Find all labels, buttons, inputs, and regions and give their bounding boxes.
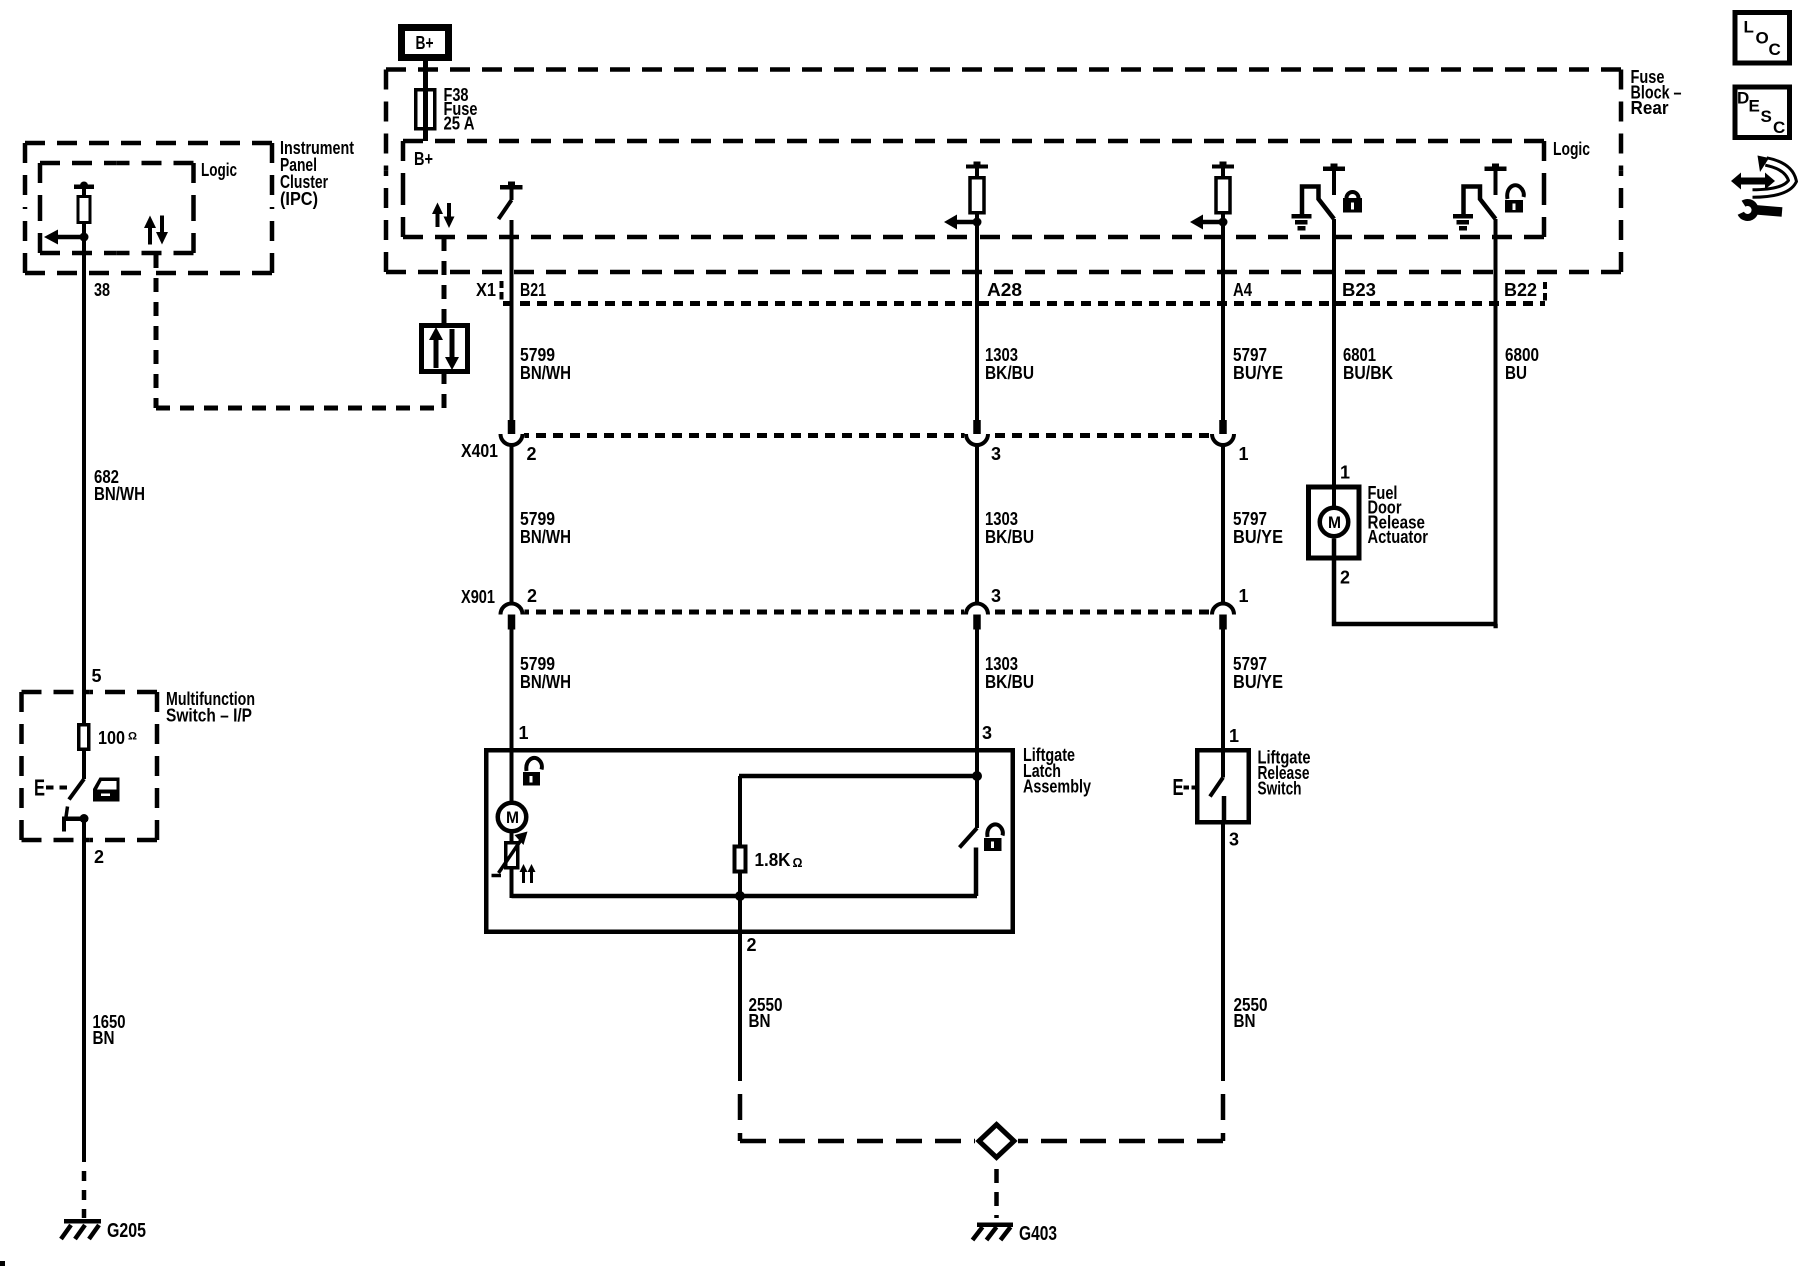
svg-text:B+: B+: [414, 149, 433, 169]
svg-text:G205: G205: [107, 1220, 146, 1242]
svg-text:1.8K: 1.8K: [755, 850, 791, 870]
svg-text:E: E: [1173, 774, 1184, 800]
svg-text:25 A: 25 A: [444, 114, 475, 134]
svg-text:2: 2: [1340, 568, 1350, 588]
svg-text:G403: G403: [1019, 1223, 1057, 1245]
svg-text:5799: 5799: [520, 345, 555, 365]
svg-text:5797: 5797: [1233, 345, 1267, 365]
svg-text:S: S: [1761, 107, 1772, 126]
svg-text:1: 1: [1239, 586, 1249, 606]
svg-text:A28: A28: [987, 280, 1022, 300]
svg-text:5799: 5799: [520, 654, 555, 674]
svg-text:BN/WH: BN/WH: [520, 363, 571, 383]
svg-text:Switch: Switch: [1258, 779, 1302, 799]
svg-text:M: M: [506, 808, 519, 827]
svg-text:L: L: [1744, 18, 1754, 37]
svg-text:3: 3: [991, 444, 1001, 464]
svg-text:1: 1: [1340, 463, 1350, 483]
svg-text:Logic: Logic: [201, 160, 237, 180]
svg-text:C: C: [1773, 118, 1785, 137]
svg-text:3: 3: [982, 723, 992, 743]
svg-text:BK/BU: BK/BU: [985, 672, 1034, 692]
svg-text:Switch – I/P: Switch – I/P: [166, 706, 252, 726]
svg-text:BN: BN: [93, 1028, 115, 1048]
svg-text:BN/WH: BN/WH: [520, 527, 571, 547]
svg-text:1: 1: [1239, 444, 1249, 464]
svg-text:5799: 5799: [520, 509, 555, 529]
svg-text:X1: X1: [476, 280, 496, 300]
svg-text:E: E: [34, 775, 45, 801]
svg-text:2: 2: [527, 586, 537, 606]
svg-text:BU/BK: BU/BK: [1343, 363, 1393, 383]
svg-text:Ω: Ω: [128, 731, 137, 743]
svg-text:D: D: [1737, 89, 1749, 108]
svg-text:BN/WH: BN/WH: [520, 672, 571, 692]
svg-text:BU/YE: BU/YE: [1233, 672, 1283, 692]
svg-text:5: 5: [92, 666, 102, 686]
svg-text:Assembly: Assembly: [1023, 777, 1091, 797]
svg-text:A4: A4: [1233, 280, 1252, 300]
svg-text:5797: 5797: [1233, 509, 1267, 529]
svg-text:E: E: [1749, 97, 1760, 116]
svg-text:2: 2: [94, 847, 104, 867]
svg-text:B21: B21: [520, 280, 546, 300]
svg-text:2: 2: [527, 444, 537, 464]
svg-text:B22: B22: [1504, 280, 1537, 300]
svg-text:BN: BN: [749, 1011, 771, 1031]
svg-text:BU/YE: BU/YE: [1233, 527, 1283, 547]
svg-text:C: C: [1769, 40, 1781, 59]
svg-text:6800: 6800: [1505, 345, 1539, 365]
svg-text:1: 1: [1229, 726, 1239, 746]
svg-text:O: O: [1756, 29, 1769, 48]
svg-text:BN/WH: BN/WH: [94, 484, 145, 504]
svg-text:1: 1: [519, 723, 529, 743]
svg-text:1303: 1303: [985, 345, 1018, 365]
svg-text:BU: BU: [1505, 363, 1527, 383]
svg-text:BK/BU: BK/BU: [985, 363, 1034, 383]
svg-text:5797: 5797: [1233, 654, 1267, 674]
svg-text:2: 2: [747, 935, 757, 955]
svg-text:Actuator: Actuator: [1368, 527, 1429, 547]
svg-text:(IPC): (IPC): [280, 189, 318, 209]
svg-text:M: M: [1328, 513, 1341, 532]
svg-text:3: 3: [1229, 830, 1239, 850]
svg-text:38: 38: [94, 280, 110, 300]
svg-text:Ω: Ω: [793, 855, 803, 870]
svg-text:X901: X901: [461, 587, 495, 607]
svg-text:100: 100: [98, 728, 125, 748]
svg-text:1303: 1303: [985, 654, 1018, 674]
svg-text:B23: B23: [1342, 280, 1376, 300]
svg-text:Logic: Logic: [1553, 139, 1590, 159]
svg-text:6801: 6801: [1343, 345, 1376, 365]
svg-text:1303: 1303: [985, 509, 1018, 529]
svg-text:3: 3: [991, 586, 1001, 606]
svg-text:BU/YE: BU/YE: [1233, 363, 1283, 383]
svg-text:BN: BN: [1234, 1011, 1256, 1031]
svg-text:BK/BU: BK/BU: [985, 527, 1034, 547]
svg-text:X401: X401: [461, 441, 498, 461]
svg-text:Rear: Rear: [1631, 98, 1669, 118]
svg-text:B+: B+: [416, 33, 434, 53]
